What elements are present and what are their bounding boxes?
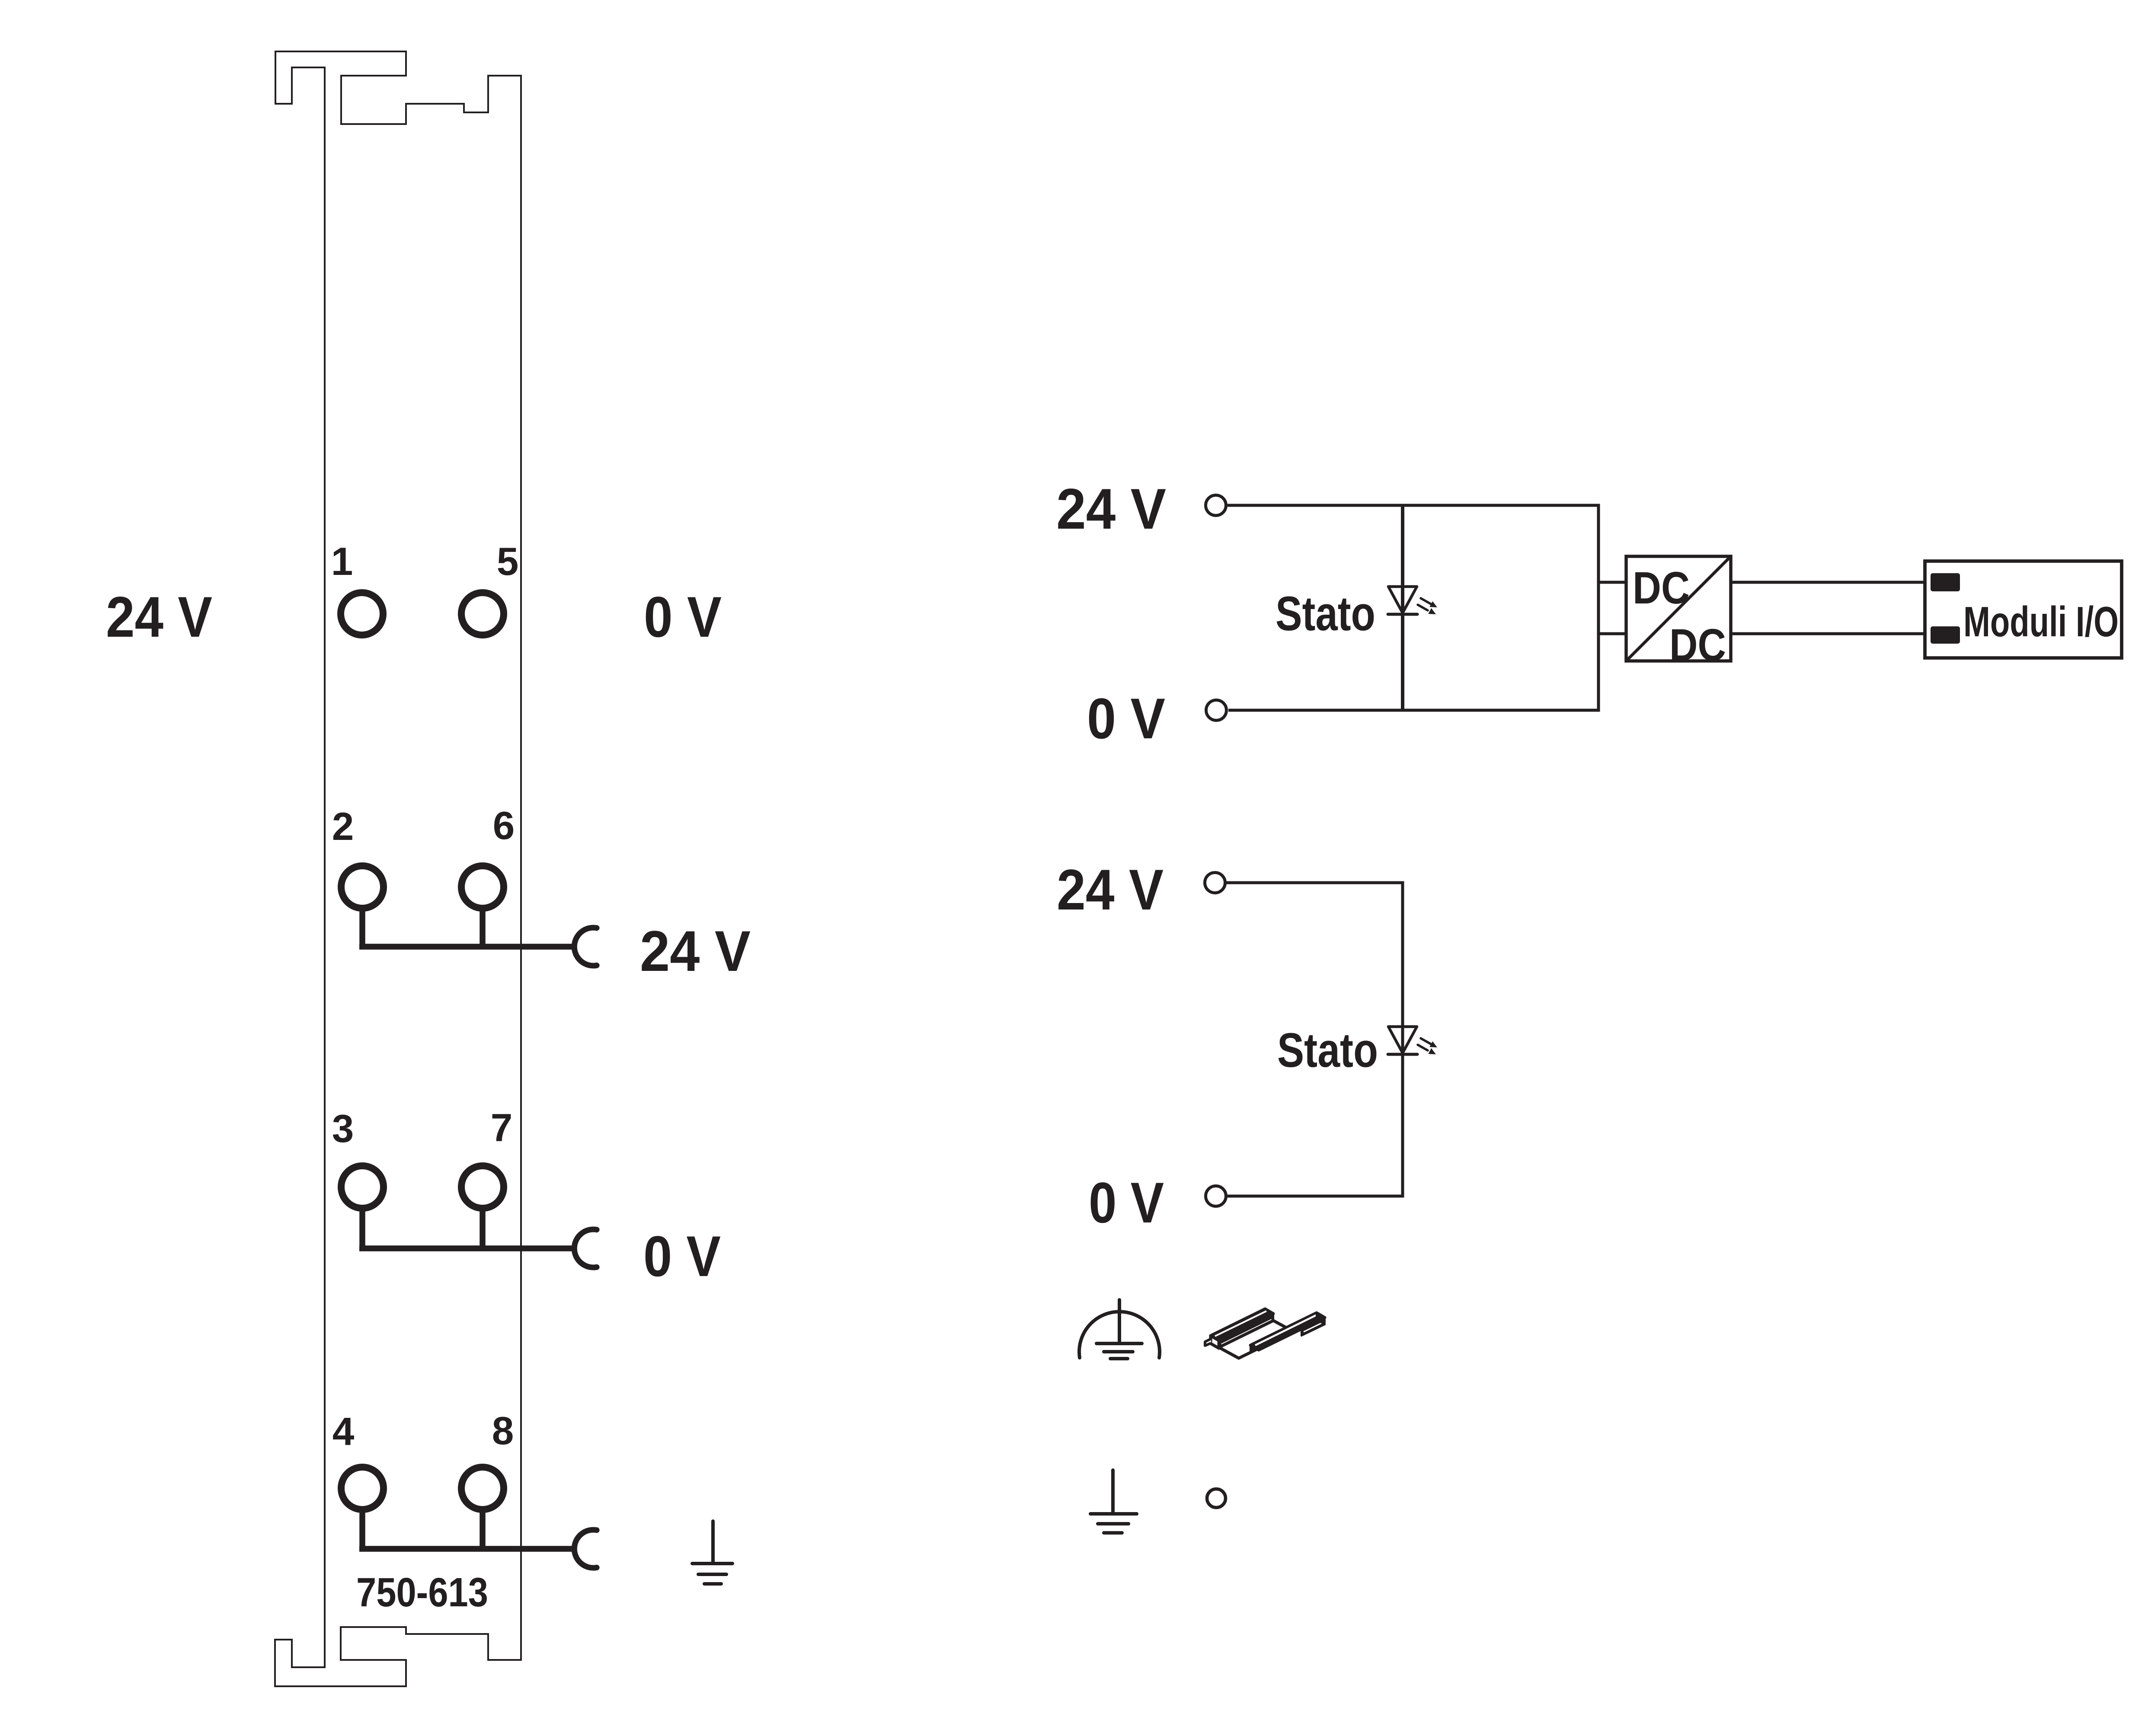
svg-text:0 V: 0 V [644, 585, 722, 649]
svg-text:750-613: 750-613 [356, 1570, 488, 1615]
svg-text:24 V: 24 V [1057, 858, 1164, 922]
svg-text:4: 4 [332, 1410, 355, 1454]
svg-text:0 V: 0 V [1087, 687, 1165, 751]
svg-text:0 V: 0 V [1089, 1171, 1164, 1235]
svg-text:Moduli I/O: Moduli I/O [1963, 598, 2119, 645]
svg-text:2: 2 [332, 805, 354, 849]
svg-text:24 V: 24 V [1056, 477, 1166, 541]
svg-text:3: 3 [332, 1107, 354, 1151]
svg-text:7: 7 [491, 1106, 513, 1150]
svg-text:8: 8 [492, 1409, 514, 1453]
svg-text:Stato: Stato [1277, 1023, 1378, 1077]
svg-text:1: 1 [331, 540, 353, 584]
svg-text:Stato: Stato [1275, 587, 1375, 641]
svg-text:DC: DC [1669, 620, 1726, 670]
svg-text:6: 6 [493, 804, 515, 848]
svg-text:DC: DC [1633, 563, 1690, 613]
svg-text:24 V: 24 V [640, 919, 751, 983]
svg-text:0 V: 0 V [643, 1225, 721, 1289]
svg-text:5: 5 [497, 540, 519, 584]
svg-text:24 V: 24 V [106, 585, 212, 649]
